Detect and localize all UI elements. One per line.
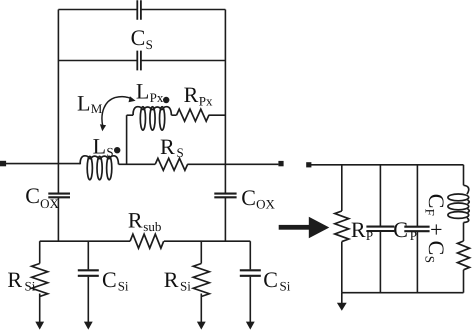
svg-text:R: R (160, 134, 175, 159)
svg-text:R: R (164, 267, 179, 292)
svg-text:Si: Si (118, 278, 129, 293)
svg-text:C: C (263, 267, 278, 292)
svg-text:+: + (424, 223, 449, 235)
svg-text:C: C (102, 267, 117, 292)
svg-text:P: P (366, 228, 373, 243)
svg-text:C: C (25, 183, 40, 208)
svg-text:R: R (7, 267, 22, 292)
svg-text:L: L (93, 134, 106, 159)
svg-text:M: M (91, 101, 103, 116)
svg-text:L: L (77, 90, 90, 115)
svg-text:Px: Px (150, 90, 164, 105)
svg-text:S: S (106, 144, 113, 159)
svg-text:S: S (422, 256, 437, 263)
svg-text:R: R (128, 208, 143, 233)
svg-text:C: C (424, 194, 449, 209)
svg-text:sub: sub (143, 219, 161, 234)
svg-text:OX: OX (256, 196, 275, 211)
svg-text:Si: Si (25, 278, 36, 293)
svg-text:C: C (131, 25, 146, 50)
svg-text:R: R (184, 82, 199, 107)
svg-text:P: P (410, 228, 417, 243)
svg-text:Px: Px (199, 94, 213, 109)
svg-text:F: F (422, 209, 437, 216)
svg-text:C: C (241, 185, 256, 210)
svg-text:C: C (393, 217, 408, 242)
svg-text:S: S (177, 145, 184, 160)
svg-text:Si: Si (180, 278, 191, 293)
svg-text:C: C (424, 241, 449, 256)
svg-text:L: L (136, 78, 149, 103)
svg-text:S: S (146, 37, 153, 52)
svg-text:R: R (351, 217, 366, 242)
svg-text:Si: Si (280, 278, 291, 293)
svg-text:OX: OX (40, 196, 59, 211)
